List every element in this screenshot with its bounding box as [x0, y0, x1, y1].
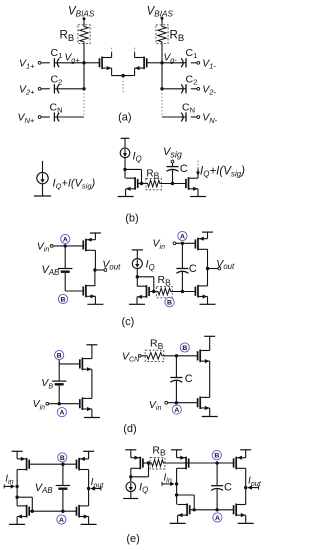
svg-text:(a): (a): [118, 111, 131, 123]
svg-text:B: B: [57, 352, 62, 359]
svg-text:(c): (c): [121, 316, 134, 328]
svg-text:B: B: [61, 296, 66, 303]
svg-text:RB​: RB​: [146, 169, 159, 181]
svg-text:B: B: [182, 345, 187, 352]
svg-text:A: A: [174, 407, 179, 414]
svg-text:A: A: [59, 517, 64, 524]
svg-text:C: C: [224, 482, 232, 494]
svg-text:(b): (b): [125, 212, 138, 224]
svg-text:B: B: [167, 300, 172, 307]
svg-text:A: A: [59, 410, 64, 417]
svg-text:C: C: [185, 373, 193, 385]
svg-text:B: B: [214, 453, 219, 460]
svg-text:A: A: [180, 233, 185, 240]
svg-text:(e): (e): [126, 533, 139, 545]
svg-text:A: A: [215, 515, 220, 522]
svg-text:A: A: [63, 236, 68, 243]
svg-text:(d): (d): [123, 423, 136, 435]
svg-text:C: C: [189, 263, 197, 275]
svg-text:B: B: [60, 455, 65, 462]
svg-text:C: C: [180, 163, 188, 175]
